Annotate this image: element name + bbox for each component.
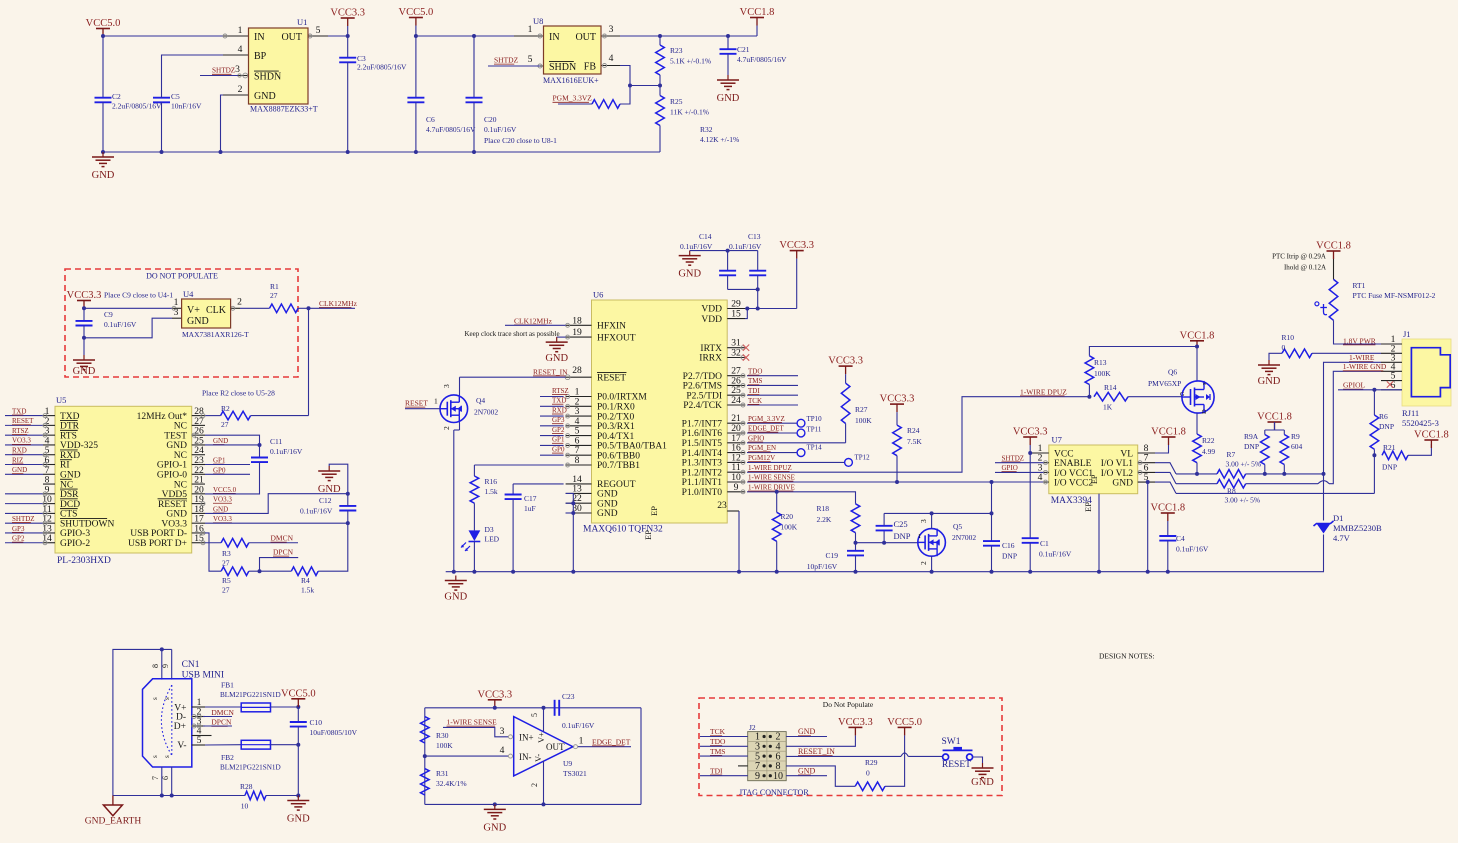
svg-text:DO NOT POPULATE: DO NOT POPULATE bbox=[146, 272, 218, 281]
U1 part number bbox=[250, 105, 318, 114]
svg-text:4.7V: 4.7V bbox=[1333, 533, 1351, 543]
capacitor C14 bbox=[719, 271, 736, 276]
op-amp U1 regulator MAX8887 box bbox=[249, 28, 309, 104]
wire Q4 drain bbox=[459, 377, 461, 396]
svg-text:1-WIRE DPUZ: 1-WIRE DPUZ bbox=[748, 464, 792, 472]
svg-text:C25: C25 bbox=[894, 519, 908, 529]
wire C19 bottom bbox=[855, 555, 857, 571]
wire TDI 2 bbox=[700, 775, 748, 777]
svg-text:GND: GND bbox=[717, 93, 740, 104]
net label TMS 2 bbox=[710, 747, 725, 756]
svg-text:Place R2 close to U5-28: Place R2 close to U5-28 bbox=[202, 389, 275, 398]
wire U5 pin10 bbox=[5, 503, 43, 505]
svg-text:PMV65XP: PMV65XP bbox=[1148, 379, 1181, 388]
svg-text:J1: J1 bbox=[1403, 329, 1411, 339]
wire C6 column bbox=[415, 36, 417, 98]
ferrite bead FB1 bbox=[241, 703, 270, 712]
wire R9 top bbox=[1283, 430, 1285, 435]
note clock bbox=[465, 330, 560, 338]
wire GPIOL vertical bbox=[1373, 455, 1375, 493]
net label TXD bbox=[552, 397, 566, 405]
IC U8 regulator MAX1616 box bbox=[544, 26, 602, 74]
svg-text:U9: U9 bbox=[563, 759, 572, 768]
svg-text:VCC5.0: VCC5.0 bbox=[281, 688, 316, 699]
wire U5 pin5 bbox=[5, 454, 43, 456]
net label GND J2 bbox=[798, 727, 816, 736]
wire PGM12V row bbox=[747, 461, 845, 463]
svg-text:10: 10 bbox=[241, 802, 249, 811]
pin bubble bbox=[43, 531, 47, 535]
capacitor C19 bbox=[847, 551, 864, 556]
svg-text:GND: GND bbox=[597, 509, 618, 519]
wire R10 left bbox=[1269, 353, 1282, 360]
svg-text:FB1: FB1 bbox=[221, 681, 234, 690]
U4 refdes bbox=[183, 289, 194, 299]
svg-text:BLM21PG221SN1D: BLM21PG221SN1D bbox=[220, 691, 281, 699]
svg-text:R25: R25 bbox=[670, 97, 683, 106]
svg-text:C2: C2 bbox=[112, 92, 121, 101]
wire GP2 bbox=[540, 435, 564, 437]
net label GND 25 bbox=[213, 437, 228, 445]
wire R6 top bbox=[1373, 390, 1375, 415]
U7 EP drop bbox=[1098, 494, 1100, 572]
svg-text:DMCN: DMCN bbox=[271, 534, 294, 543]
net label GND J2 2 bbox=[798, 766, 816, 775]
svg-text:IN-: IN- bbox=[519, 752, 532, 762]
pin bubble bbox=[43, 433, 47, 437]
U8 refdes bbox=[533, 16, 543, 26]
U6 refdes bbox=[593, 290, 603, 300]
svg-text:P1.0/INT0: P1.0/INT0 bbox=[682, 488, 723, 498]
wire C10 bottom bbox=[297, 727, 299, 796]
U6 right pin stubs bbox=[727, 299, 749, 494]
U1 refdes bbox=[297, 17, 307, 27]
net label 1-WIRE DPUZ bbox=[748, 464, 792, 472]
wire PGM_3.3VZ row bbox=[747, 422, 797, 424]
Q6 pin markers bbox=[1180, 382, 1208, 414]
net label TDO 2 bbox=[710, 737, 726, 746]
power VCC3.3 R27 bbox=[828, 356, 863, 375]
svg-text:V+: V+ bbox=[187, 305, 200, 316]
U5 left pin names bbox=[60, 412, 114, 549]
wire to SW1 bbox=[908, 755, 942, 757]
net label TMS bbox=[748, 377, 763, 385]
ground main rail bbox=[444, 576, 467, 603]
svg-text:18: 18 bbox=[572, 315, 582, 326]
wire C13 to VDD bbox=[757, 289, 759, 308]
svg-text:R3: R3 bbox=[222, 549, 231, 558]
svg-text:0: 0 bbox=[1282, 343, 1286, 352]
capacitor C1 bbox=[1022, 538, 1039, 543]
do-not-populate dashed box 2 bbox=[699, 698, 1002, 796]
svg-text:3: 3 bbox=[609, 24, 614, 35]
capacitor C10 bbox=[290, 722, 307, 727]
svg-text:ENABLE: ENABLE bbox=[1054, 459, 1092, 469]
net label RIZ bbox=[12, 456, 23, 464]
svg-text:C19: C19 bbox=[826, 551, 839, 560]
svg-text:GND: GND bbox=[92, 170, 115, 181]
svg-text:GND: GND bbox=[73, 366, 96, 377]
svg-text:5: 5 bbox=[530, 713, 539, 717]
svg-text:P2.7/TDO: P2.7/TDO bbox=[683, 372, 722, 382]
svg-text:EP: EP bbox=[643, 530, 653, 540]
svg-text:0.1uF/16V: 0.1uF/16V bbox=[680, 242, 713, 251]
svg-text:RXD: RXD bbox=[12, 447, 27, 455]
CN1 labels bbox=[182, 660, 225, 681]
net label TDI bbox=[748, 387, 760, 395]
net label PGM_3.3VZ bbox=[553, 94, 593, 103]
svg-text:PTC Fuse MF-NSMF012-2: PTC Fuse MF-NSMF012-2 bbox=[1353, 291, 1436, 300]
svg-text:P2.5/TDI: P2.5/TDI bbox=[686, 391, 722, 401]
junction bbox=[1097, 570, 1101, 574]
svg-text:Place C9 close to U4-1: Place C9 close to U4-1 bbox=[104, 291, 173, 300]
R5 value bbox=[222, 576, 231, 595]
svg-text:DMCN: DMCN bbox=[211, 708, 234, 717]
wire HFXIN bbox=[505, 324, 566, 326]
U7 EP label 2 bbox=[1083, 502, 1093, 512]
svg-text:R2: R2 bbox=[221, 404, 230, 413]
resistor R4 bbox=[291, 567, 318, 576]
wire OUT to VCC3.3 bbox=[328, 35, 348, 37]
pin bubble bbox=[43, 502, 47, 506]
junction bbox=[542, 802, 546, 806]
wire Q5 gate bbox=[856, 542, 918, 544]
net label GP0 bbox=[552, 446, 565, 454]
capacitor C12 bbox=[339, 506, 356, 511]
svg-text:C13: C13 bbox=[748, 232, 761, 241]
wire gnd pin30 bbox=[566, 512, 574, 514]
wire C20 column bbox=[473, 36, 475, 98]
svg-text:8: 8 bbox=[575, 455, 580, 466]
svg-text:U6: U6 bbox=[593, 290, 603, 300]
wire U9 right vert bbox=[640, 708, 642, 805]
svg-text:SHTDZ: SHTDZ bbox=[494, 56, 519, 65]
wire R20 leads bbox=[776, 492, 778, 513]
svg-text:TP12: TP12 bbox=[855, 454, 871, 462]
wire hop RESET_IN bbox=[901, 753, 908, 757]
wire GPIO row bbox=[747, 442, 846, 444]
net label SHTDZ 2 bbox=[494, 56, 519, 65]
svg-text:VCC3.3: VCC3.3 bbox=[477, 689, 512, 700]
svg-text:4.99: 4.99 bbox=[1202, 447, 1215, 456]
wire VCC5.0 rail 2 bbox=[416, 26, 535, 37]
wire RTSZ bbox=[540, 396, 564, 398]
power VCC3.3 J2 bbox=[838, 717, 873, 736]
wire C9 bottom bbox=[83, 326, 85, 356]
wire U4 pin3 gnd bbox=[84, 318, 172, 338]
junction bbox=[472, 34, 476, 38]
svg-text:GND: GND bbox=[798, 766, 816, 775]
svg-text:1: 1 bbox=[918, 533, 921, 540]
net label 1-WIRE DRIVE bbox=[748, 483, 795, 491]
svg-text:1-WIRE: 1-WIRE bbox=[1349, 353, 1375, 362]
wire C13 column bbox=[757, 251, 759, 271]
resistor R5 bbox=[221, 567, 249, 576]
U9 pin5 number bbox=[530, 713, 539, 717]
junction bbox=[1166, 570, 1170, 574]
U8 pin names bbox=[549, 32, 596, 73]
DNP title 2 bbox=[823, 700, 874, 709]
U7 pin names bbox=[1054, 450, 1133, 489]
svg-text:GND: GND bbox=[213, 437, 228, 445]
net label DMCN 2 bbox=[211, 708, 234, 717]
wire pin2 supply bbox=[543, 761, 545, 805]
wire CN1 pin6 bbox=[171, 767, 173, 796]
svg-text:R7: R7 bbox=[1227, 450, 1236, 459]
wire R22 bottom bbox=[1196, 463, 1198, 474]
svg-text:IRTX: IRTX bbox=[700, 344, 722, 354]
svg-text:GND: GND bbox=[213, 505, 228, 513]
svg-text:TP14: TP14 bbox=[807, 444, 823, 452]
junction bbox=[346, 34, 350, 38]
net label 1-WIRE bbox=[1349, 353, 1375, 362]
wire 1-WIRE DPUZ bbox=[747, 397, 1089, 473]
svg-text:P2.6/TMS: P2.6/TMS bbox=[683, 382, 722, 392]
svg-text:EDGE_DET: EDGE_DET bbox=[748, 425, 784, 433]
wire R8 line right bbox=[1246, 483, 1318, 485]
svg-text:JTAG CONNECTOR: JTAG CONNECTOR bbox=[739, 788, 809, 797]
svg-text:GND: GND bbox=[187, 316, 209, 327]
svg-text:C5: C5 bbox=[171, 92, 180, 101]
U5 right pin names bbox=[128, 412, 187, 549]
wire R7 line right bbox=[1246, 473, 1324, 475]
svg-text:RESET: RESET bbox=[12, 417, 34, 425]
svg-text:TDI: TDI bbox=[710, 766, 723, 775]
junction bbox=[160, 647, 164, 651]
wire P0.7 to R16 bbox=[474, 464, 563, 466]
power VCC3.3 U7 bbox=[1013, 427, 1048, 446]
power VCC1.8 U7 bbox=[1151, 427, 1186, 446]
svg-text:100K: 100K bbox=[855, 416, 872, 425]
svg-text:VDD: VDD bbox=[701, 305, 722, 315]
svg-text:R28: R28 bbox=[240, 782, 253, 791]
wire U9 bottom rail bbox=[425, 803, 641, 805]
svg-text:19: 19 bbox=[572, 327, 582, 338]
svg-text:RTSZ: RTSZ bbox=[552, 387, 569, 395]
U6 left pin names bbox=[597, 322, 667, 520]
junction bbox=[756, 287, 760, 291]
wire U5 pin6 bbox=[5, 464, 43, 466]
svg-text:R18: R18 bbox=[817, 504, 830, 513]
svg-text:R31: R31 bbox=[436, 769, 449, 778]
wire pin4 stub bbox=[205, 735, 212, 737]
power VCC3.3 R24 bbox=[880, 394, 915, 413]
junction bbox=[296, 794, 300, 798]
svg-text:10uF/0805/10V: 10uF/0805/10V bbox=[310, 728, 358, 737]
svg-text:DPCN: DPCN bbox=[211, 718, 232, 727]
CN1 pin names bbox=[174, 704, 187, 752]
wire pin16 down bbox=[205, 533, 221, 571]
wire TDO bbox=[747, 375, 798, 377]
svg-text:GND: GND bbox=[971, 777, 994, 788]
svg-text:VCC3.3: VCC3.3 bbox=[838, 717, 873, 728]
svg-text:1.5k: 1.5k bbox=[301, 586, 314, 595]
junction bbox=[452, 570, 456, 574]
wire RXD bbox=[540, 415, 564, 417]
svg-text:R30: R30 bbox=[436, 731, 449, 740]
wire CN1 top loop bbox=[113, 649, 172, 795]
wire gnd pin22 bbox=[566, 502, 574, 504]
junction bbox=[346, 150, 350, 154]
svg-text:P0.6/TBB0: P0.6/TBB0 bbox=[597, 451, 640, 461]
junction bbox=[1322, 472, 1326, 476]
svg-text:27: 27 bbox=[222, 586, 230, 595]
C10 labels bbox=[310, 718, 358, 737]
DNP title bbox=[146, 272, 218, 281]
svg-text:Keep clock trace short as poss: Keep clock trace short as possible bbox=[465, 330, 560, 338]
wire U5 pin2 bbox=[5, 424, 43, 426]
wire I/O VL2 line R8 bbox=[1176, 483, 1217, 485]
wire PGM_EN row bbox=[747, 452, 797, 454]
svg-text:3: 3 bbox=[919, 519, 928, 523]
wire U5 pin1 bbox=[5, 415, 43, 417]
U9 pin4 bbox=[500, 745, 513, 758]
net label GP0 bbox=[213, 466, 226, 474]
resistor R10 bbox=[1282, 349, 1312, 358]
svg-text:10: 10 bbox=[773, 771, 783, 782]
resistor R2 bbox=[221, 411, 251, 420]
C4 labels bbox=[1176, 534, 1209, 554]
svg-text:P0.4/TX1: P0.4/TX1 bbox=[597, 432, 634, 442]
svg-text:DNP: DNP bbox=[1244, 442, 1259, 451]
transistor Q4 2N7002 bbox=[440, 395, 468, 423]
wire C12 bottom bbox=[318, 511, 348, 572]
svg-text:HFXIN: HFXIN bbox=[597, 322, 626, 332]
J1 pin stubs bbox=[1381, 334, 1402, 391]
svg-text:0.1uF/16V: 0.1uF/16V bbox=[484, 125, 517, 134]
svg-text:6: 6 bbox=[161, 776, 170, 780]
note R2 bbox=[202, 389, 275, 398]
wire R25 leads bbox=[659, 86, 661, 96]
wire REGOUT to C17 bbox=[513, 483, 564, 485]
svg-text:BP: BP bbox=[254, 51, 267, 62]
wire J2 pin8 to R29 bbox=[786, 766, 855, 786]
D3 labels bbox=[485, 525, 500, 544]
wire C20 bottom bbox=[473, 102, 475, 152]
resistor R7 bbox=[1217, 470, 1246, 479]
junction bbox=[1195, 472, 1199, 476]
svg-text:Q4: Q4 bbox=[476, 396, 485, 405]
svg-text:DNP: DNP bbox=[1379, 422, 1394, 431]
wire U5 pin9 bbox=[5, 493, 43, 495]
svg-text:GPIO-2: GPIO-2 bbox=[60, 539, 90, 549]
svg-text:RJ11: RJ11 bbox=[1402, 408, 1419, 418]
svg-text:U5: U5 bbox=[56, 395, 66, 405]
wire R32 right bbox=[620, 86, 630, 105]
svg-text:7: 7 bbox=[151, 776, 160, 780]
svg-text:10pF/16V: 10pF/16V bbox=[807, 562, 838, 571]
junction bbox=[1372, 388, 1376, 392]
wire Q4 source rail bbox=[453, 430, 455, 572]
net label RESET bbox=[12, 417, 34, 425]
svg-text:0.1uF/16V: 0.1uF/16V bbox=[300, 507, 333, 516]
wire GP1 bbox=[205, 464, 250, 466]
svg-text:DNP: DNP bbox=[1382, 463, 1397, 472]
net label 1.8V PWR bbox=[1343, 336, 1376, 345]
wire VCC3.3 U7 drop bbox=[1029, 445, 1031, 453]
net label GPIOL bbox=[1343, 381, 1366, 390]
svg-text:I/O VCC2: I/O VCC2 bbox=[1054, 479, 1093, 489]
wire EDGE_DET out bbox=[578, 746, 631, 748]
junction bbox=[160, 150, 164, 154]
svg-text:P0.5/TBA0/TBA1: P0.5/TBA0/TBA1 bbox=[597, 442, 667, 452]
svg-text:D1: D1 bbox=[1333, 513, 1343, 523]
wire R9A bottom bbox=[1264, 465, 1266, 474]
wire pin7 jog bbox=[1155, 463, 1176, 474]
Q5 labels bbox=[952, 522, 976, 542]
svg-text:P0.2/TX0: P0.2/TX0 bbox=[597, 412, 634, 422]
CN1 pin76 numbers bbox=[151, 776, 170, 780]
test point TP10 bbox=[797, 415, 822, 427]
svg-text:1K: 1K bbox=[1103, 403, 1113, 412]
wire GPIOL bbox=[1338, 389, 1402, 391]
svg-text:D-: D- bbox=[176, 713, 186, 723]
wire R9 bottom bbox=[1283, 465, 1285, 474]
svg-text:GPIO-3: GPIO-3 bbox=[60, 529, 90, 539]
wire R21 to VCC1.8 bbox=[1408, 444, 1431, 455]
wire V- to FB2 bbox=[205, 744, 241, 746]
wire fuse to J1 pin1 bbox=[1334, 320, 1382, 344]
svg-text:C16: C16 bbox=[1002, 541, 1015, 550]
svg-text:IN: IN bbox=[254, 32, 265, 43]
wire C21 top bbox=[727, 36, 729, 49]
power VCC3.3 U6 bbox=[779, 240, 814, 259]
wire ground rail top-left bbox=[103, 151, 660, 153]
pin bubble bbox=[43, 414, 47, 418]
svg-text:FB: FB bbox=[584, 62, 597, 73]
junction bbox=[414, 34, 418, 38]
svg-text:2: 2 bbox=[237, 297, 242, 308]
wire SW1 to gnd bbox=[973, 757, 983, 763]
svg-text:RESET: RESET bbox=[405, 399, 428, 408]
svg-text:32.4K/1%: 32.4K/1% bbox=[436, 779, 467, 788]
svg-text:2.2uF/0805/16V: 2.2uF/0805/16V bbox=[357, 63, 407, 72]
wire R18 bottom bbox=[855, 533, 857, 551]
diode D1 MMBZ5230B zener bbox=[1314, 521, 1334, 534]
junction bbox=[745, 307, 749, 311]
IC U5 PL-2303HXD box bbox=[55, 406, 192, 553]
svg-text:P0.7/TBB1: P0.7/TBB1 bbox=[597, 461, 640, 471]
wire J1 pin3 down bbox=[1324, 362, 1382, 474]
R24 value bbox=[907, 426, 922, 446]
svg-text:1-WIRE DRIVE: 1-WIRE DRIVE bbox=[748, 483, 795, 491]
wire D3 bottom bbox=[473, 542, 475, 572]
resistor R32 bbox=[592, 100, 620, 109]
wire Q5 drain bbox=[931, 513, 933, 528]
wire R2 right bbox=[251, 415, 309, 417]
wire CN1 pin8 bbox=[161, 649, 163, 679]
IC U4 MAX7381 box bbox=[182, 299, 231, 328]
wire FB1 to VCC5 bbox=[271, 706, 299, 708]
pin bubble bbox=[43, 492, 47, 496]
svg-text:R10: R10 bbox=[1282, 333, 1295, 342]
svg-text:P1.7/INT7: P1.7/INT7 bbox=[682, 419, 723, 429]
wire GP0 bbox=[540, 454, 564, 456]
svg-text:USB MINI: USB MINI bbox=[182, 671, 225, 681]
resistor R16 bbox=[470, 476, 479, 503]
junction bbox=[1028, 570, 1032, 574]
svg-text:EDGE_DET: EDGE_DET bbox=[592, 737, 631, 746]
net label PGM12V bbox=[748, 454, 775, 462]
svg-text:3.00 +/- 5%: 3.00 +/- 5% bbox=[1226, 460, 1262, 469]
wire R28 right bbox=[266, 795, 298, 797]
R29 value bbox=[865, 758, 878, 778]
wire pin5 supply bbox=[543, 708, 545, 732]
resistor R14 bbox=[1094, 392, 1128, 401]
junction bbox=[1372, 453, 1376, 457]
svg-text:C6: C6 bbox=[426, 115, 435, 124]
svg-text:HFXOUT: HFXOUT bbox=[597, 333, 636, 343]
